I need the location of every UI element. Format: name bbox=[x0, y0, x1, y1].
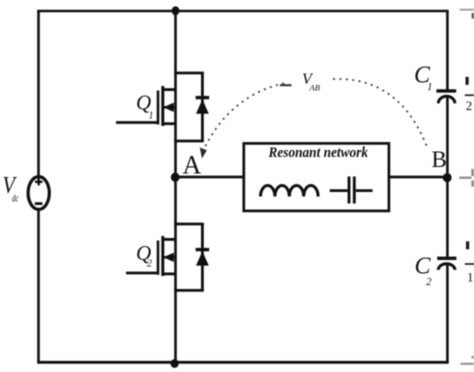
Q1 drain tap bbox=[162, 88, 176, 91]
cropped fragment gray lead at node B level bbox=[459, 177, 471, 179]
cropped fragment fraction bar near C1 bbox=[465, 94, 474, 96]
Q1 box top bar bbox=[174, 72, 204, 75]
transistor Q1 bbox=[116, 73, 204, 141]
cropped fragment top right wire bbox=[460, 9, 474, 11]
voltage source Vdc circle bbox=[28, 177, 49, 210]
Q1 body arrow bbox=[163, 103, 174, 112]
Q2 body diode triangle bbox=[196, 251, 209, 265]
cropped fragment label U stem near C2 bbox=[466, 241, 469, 249]
capacitor C2 curved plate bbox=[438, 264, 455, 270]
capacitor C1 curved plate bbox=[438, 96, 455, 103]
Q2 body line bbox=[164, 256, 176, 258]
svg-text:2: 2 bbox=[466, 98, 473, 113]
capacitor Cr plate right bbox=[353, 177, 356, 204]
svg-text:2: 2 bbox=[426, 276, 432, 288]
capacitor Cr plate left bbox=[348, 177, 351, 204]
Q2 gate lead bbox=[126, 272, 158, 275]
Q2 gate plate bbox=[157, 241, 160, 275]
svg-text:Resonant network: Resonant network bbox=[268, 145, 369, 161]
capacitor Cr lead right bbox=[356, 189, 373, 192]
svg-text:1: 1 bbox=[149, 111, 154, 122]
Q2 body diode cathode bar bbox=[196, 248, 210, 251]
Q1 gate plate bbox=[157, 91, 160, 125]
Q1 box bottom bar bbox=[174, 140, 204, 143]
wire node A to resonant box bbox=[176, 176, 245, 179]
svg-text:2: 2 bbox=[147, 259, 152, 270]
svg-text:B: B bbox=[432, 147, 447, 172]
dashed arc arrowhead at A bbox=[200, 148, 207, 159]
Q1 body diode cathode bar bbox=[196, 96, 210, 99]
Q1 channel bar bbox=[161, 86, 164, 126]
cropped fragment label U stem near C1 bbox=[466, 77, 469, 85]
Q2 box bottom bar bbox=[174, 289, 204, 292]
svg-text:AB: AB bbox=[309, 83, 320, 93]
Q2 body arrow bbox=[163, 253, 174, 262]
cropped fragment bottom right blob bbox=[472, 356, 474, 359]
svg-text:1: 1 bbox=[467, 270, 474, 285]
wire left lower bbox=[37, 209, 40, 362]
Q2 drain tap bbox=[162, 238, 176, 241]
Q1 gate lead bbox=[116, 121, 158, 124]
capacitor Cr lead left bbox=[330, 189, 348, 192]
dashed arc VAB right segment bbox=[333, 79, 427, 148]
svg-text:A: A bbox=[183, 151, 202, 180]
node A junction dot bbox=[171, 173, 180, 182]
capacitor C2 top plate bbox=[437, 257, 456, 260]
Q2 diode branch leg bbox=[201, 224, 204, 290]
node B junction dot bbox=[443, 173, 452, 182]
wire right middle (C1 to C2) bbox=[446, 96, 449, 257]
Q1 body diode triangle bbox=[196, 99, 209, 114]
capacitor C1 top plate bbox=[436, 89, 456, 92]
Q1 source tap bbox=[162, 122, 176, 125]
cropped fragment bottom right wire bbox=[461, 363, 474, 365]
Q2 source tap bbox=[162, 272, 176, 275]
transistor Q2 bbox=[126, 224, 204, 290]
inductor Lr bbox=[261, 186, 319, 197]
wire bottom rail bbox=[37, 361, 449, 364]
Q1 diode branch leg bbox=[201, 73, 204, 141]
Q2 box top bar bbox=[174, 223, 204, 226]
Q1 body line bbox=[164, 106, 176, 108]
wire left upper bbox=[37, 11, 40, 177]
cropped fragment gray bar at node B level bbox=[471, 169, 474, 176]
svg-text:dc: dc bbox=[12, 194, 19, 205]
wire resonant box to node B bbox=[389, 176, 448, 179]
junction top bbox=[172, 6, 180, 15]
dashed arc VAB left segment bbox=[203, 83, 287, 152]
svg-text:1: 1 bbox=[427, 81, 433, 93]
wire right lower (C2 to bottom rail) bbox=[446, 263, 449, 362]
junction bottom bbox=[171, 359, 179, 368]
resonant network box bbox=[244, 143, 389, 211]
wire right upper (top rail to C1) bbox=[446, 11, 449, 92]
cropped fragment top right blob bbox=[472, 13, 474, 19]
cropped fragment fraction bar near C2 bbox=[465, 263, 474, 265]
wire top rail bbox=[37, 10, 448, 13]
Q2 channel bar bbox=[161, 236, 164, 276]
dashed arc VAB long dash bbox=[280, 84, 292, 86]
wire middle leg bbox=[174, 11, 177, 362]
